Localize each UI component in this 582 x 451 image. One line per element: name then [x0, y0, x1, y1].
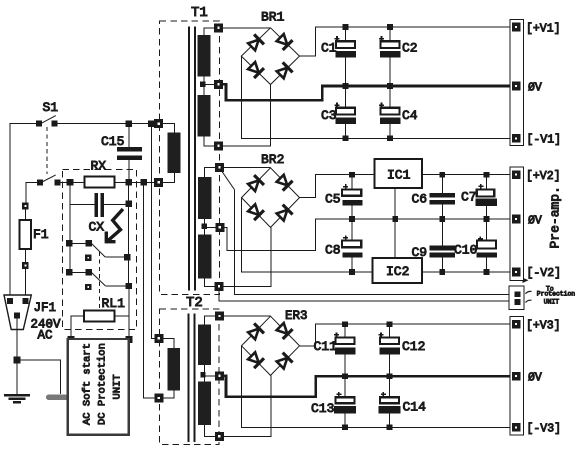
junction C6 bottom: [440, 216, 446, 222]
node T1 primary bottom: [155, 178, 163, 186]
svg-text:IC2: IC2: [386, 264, 409, 279]
wire +V3 bus: [300, 324, 511, 346]
svg-text:ØV: ØV: [528, 82, 542, 95]
wire T2 sec bottom lead: [205, 425, 216, 436]
node sec2 tap small: [202, 224, 206, 228]
switch S1 pole 1: [37, 116, 57, 126]
capacitor C4: [379, 86, 400, 138]
fuse F1: [20, 220, 32, 249]
junction C7 top: [484, 172, 490, 178]
junction C1 top: [343, 24, 349, 30]
bridge BR1 diamond: [241, 28, 299, 85]
svg-text:T2: T2: [186, 295, 203, 311]
svg-text:C5: C5: [325, 192, 341, 207]
terminal +V3: [512, 320, 520, 328]
T1 secondary 1 lower winding: [198, 95, 211, 137]
svg-text:F1: F1: [33, 227, 49, 242]
wire 0V2 bus: [224, 219, 510, 250]
T1 secondary 2 lower winding: [198, 235, 212, 279]
svg-text:[+V1]: [+V1]: [526, 23, 561, 36]
wire sec1 centre tap: [203, 77, 205, 96]
ground earth symbol: [4, 395, 30, 402]
wire RX row: [60, 181, 85, 183]
wire T2 primary top lead: [163, 338, 174, 348]
node sec1 top: [215, 24, 223, 32]
svg-text:C12: C12: [402, 339, 425, 354]
node unit pin left: [68, 337, 74, 343]
capacitor C15: [117, 124, 142, 180]
junction C12 bottom: [387, 373, 393, 379]
ground chassis bar: [46, 394, 75, 400]
svg-text:C13: C13: [311, 401, 334, 416]
junction C5 top: [349, 172, 355, 178]
T1 primary winding: [167, 132, 180, 172]
wire shunt right column: [128, 185, 130, 257]
svg-text:C8: C8: [325, 243, 341, 258]
wire IC1 to IC2 link: [394, 188, 396, 258]
terminal +V2: [512, 171, 520, 179]
capacitor C3: [335, 86, 356, 138]
svg-text:Pre-amp.: Pre-amp.: [548, 186, 563, 248]
svg-text:JF1: JF1: [34, 301, 57, 315]
wire -V2 from IC2 to terminal: [422, 271, 510, 273]
svg-text:UNIT: UNIT: [544, 298, 560, 305]
svg-text:ER3: ER3: [285, 309, 308, 323]
node T2 primary top: [155, 334, 163, 342]
svg-text:C7: C7: [461, 190, 477, 205]
node T2 sec top: [216, 312, 224, 320]
pin E: [15, 313, 20, 318]
svg-text:C10: C10: [454, 243, 477, 258]
diode BR1 D1: [247, 34, 264, 51]
capacitor C5: [342, 175, 363, 219]
node fuse top terminal: [23, 203, 29, 209]
node link marker 1: [86, 255, 91, 260]
wire -V2 to IC2: [242, 198, 373, 272]
node T2 sec bottom: [215, 432, 223, 440]
wire protection sense B: [219, 290, 515, 301]
node fuse bottom terminal: [23, 263, 29, 269]
terminal -V3: [512, 424, 520, 432]
svg-text:BR2: BR2: [261, 152, 284, 167]
wire sec2 bottom lead: [205, 278, 215, 286]
connector JF1 body: [4, 295, 31, 330]
terminal 0V1: [512, 82, 520, 90]
svg-text:C11: C11: [314, 339, 338, 354]
wire mains top from input to S1 and T1 primary: [10, 124, 36, 298]
svg-text:[-V2]: [-V2]: [527, 267, 562, 280]
svg-text:C6: C6: [412, 192, 428, 207]
wire +V2 from IC1 to terminal: [422, 174, 510, 176]
svg-text:[-V1]: [-V1]: [527, 134, 562, 147]
diode BR1 D4: [275, 62, 292, 79]
junction C8 bottom: [349, 269, 355, 275]
T2 core lines: [189, 314, 195, 443]
switch S1 pole 2: [38, 175, 60, 185]
relay link dashed: [99, 252, 101, 310]
terminal +V1: [512, 23, 520, 31]
node sec1 tap small: [201, 82, 205, 86]
junction C11 top: [342, 321, 348, 327]
wire relay right contact to coil lead: [128, 289, 130, 316]
terminal strip 2: [510, 167, 524, 280]
wire 0V bus section3 (thick): [224, 376, 511, 397]
terminal strip 3: [510, 316, 524, 435]
svg-text:IC1: IC1: [387, 168, 411, 183]
svg-text:C14: C14: [403, 400, 427, 415]
node sec2 bottom: [215, 282, 223, 290]
junction C1 bottom: [343, 83, 349, 89]
wire +V2 to IC1: [300, 175, 375, 198]
node T2 sec centre: [216, 372, 224, 380]
svg-text:RX: RX: [91, 159, 107, 174]
pin protection A: [515, 292, 520, 297]
diode BR3 D1: [247, 323, 264, 340]
IC1 box: [375, 159, 423, 188]
junction C2 bottom: [387, 83, 393, 89]
wire AC1 to BR2: [224, 166, 271, 168]
wire live: corner to fuse: [26, 182, 40, 203]
capacitor CX: [70, 193, 129, 217]
svg-text:CX: CX: [89, 220, 105, 235]
node T2 feed tap top wire: [149, 121, 155, 127]
diode BR3 D3: [247, 351, 264, 368]
capacitor C8: [342, 219, 363, 272]
T1 secondary 1 upper winding: [198, 35, 211, 77]
diode BR1 D2: [275, 33, 292, 50]
wire fuse to connector pin: [24, 268, 26, 298]
wire T2 sec top lead: [205, 316, 216, 325]
wire T2 primary feed A (from top wire): [151, 126, 155, 338]
relay contact row 1: [67, 241, 131, 260]
junction C7 bottom: [484, 216, 490, 222]
node T2 primary bottom: [155, 394, 163, 402]
svg-text:Protection: Protection: [537, 290, 576, 297]
capacitor C9: [430, 219, 456, 272]
wire T1 primary top lead: [163, 124, 175, 133]
node earth junction: [14, 357, 20, 363]
diode BR2 D2: [275, 173, 292, 190]
svg-text:[-V3]: [-V3]: [527, 423, 562, 436]
terminal 0V2: [512, 215, 520, 223]
junction C4 bottom: [387, 136, 393, 142]
T1 secondary 2 upper winding: [198, 177, 212, 219]
terminal strip 1: [510, 20, 524, 146]
wire shunt left column: [69, 185, 71, 243]
diode BR2 D1: [247, 175, 264, 192]
arrow strip2 corner: [523, 278, 529, 283]
capacitor C14: [379, 376, 401, 427]
dashed box AC soft start control: [62, 170, 136, 330]
capacitor C1: [335, 27, 356, 86]
T1 core lines: [189, 26, 195, 290]
svg-text:[+V3]: [+V3]: [526, 320, 561, 333]
node RX output junction T2 feed: [141, 180, 147, 186]
T2 primary winding: [168, 348, 180, 390]
squiggle B: [526, 300, 532, 302]
relay coil RL1: [84, 310, 114, 321]
junction IC link 0V: [392, 216, 398, 222]
wire T1 primary bottom lead: [163, 173, 175, 183]
wire AC1 top to bridge: [223, 27, 271, 29]
wire shunt right column lower: [128, 260, 130, 286]
wire into fuse: [24, 209, 26, 263]
capacitor C13: [334, 376, 356, 427]
diode BR3 D2: [275, 322, 292, 339]
capacitor C11: [334, 324, 355, 376]
wire AC2 to BR3: [223, 375, 270, 436]
T2 secondary upper winding: [198, 325, 211, 366]
relay actuator arrow: [106, 210, 122, 241]
svg-text:RL1: RL1: [102, 296, 126, 311]
capacitor C7: [475, 175, 497, 219]
svg-text:C3: C3: [321, 108, 337, 123]
wire T2 primary feed B (from RX output): [144, 185, 156, 398]
pin N: [23, 299, 28, 304]
wire sec1 top lead: [204, 28, 215, 35]
wire earth pin down: [16, 318, 18, 394]
protection unit box: [68, 339, 129, 435]
pin protection B: [515, 300, 520, 305]
wire coil left lead: [71, 316, 84, 338]
pin L: [8, 299, 13, 304]
svg-text:C15: C15: [101, 134, 124, 149]
junction C5 bottom: [349, 216, 355, 222]
node sec2 top: [216, 163, 224, 171]
junction C3 bottom: [343, 136, 349, 142]
wire T2 primary bottom lead: [163, 390, 174, 398]
svg-text:DC Protection: DC Protection: [97, 343, 109, 425]
capacitor C10: [477, 219, 497, 272]
junction C14 bottom: [387, 425, 393, 431]
wire shunt left column lower: [69, 246, 71, 272]
node unit pin right: [126, 337, 132, 343]
capacitor C12: [379, 324, 400, 376]
wire sec1 bottom lead: [204, 137, 215, 146]
S1 mechanical link (dashed): [46, 127, 48, 174]
node RX input junction: [67, 180, 73, 186]
node sec1 centre: [215, 80, 223, 88]
junction C9 bottom: [440, 269, 446, 275]
transformer T2 dashed box: [160, 309, 220, 445]
wire coil right lead: [114, 316, 129, 338]
svg-text:C2: C2: [402, 41, 418, 56]
svg-text:T1: T1: [191, 5, 208, 21]
bridge BR3 diamond: [242, 316, 300, 375]
protection terminal box: [509, 286, 524, 310]
wire protection sense A: [221, 170, 235, 190]
junction C10 bottom: [484, 269, 490, 275]
svg-text:C4: C4: [402, 108, 418, 123]
node C15 top tap: [126, 121, 132, 127]
terminal -V1: [512, 135, 520, 143]
node T2 sec tap small: [201, 373, 205, 377]
junction C13 bottom: [342, 425, 348, 431]
squiggle A: [526, 291, 532, 293]
svg-text:C1: C1: [321, 41, 337, 56]
svg-text:AC Soft start: AC Soft start: [82, 343, 94, 425]
node link marker 2: [86, 284, 91, 289]
diode BR1 D3: [247, 61, 264, 78]
wire AC2 bottom to bridge: [223, 85, 271, 146]
bridge BR2 diamond: [242, 168, 300, 228]
junction C11 bottom: [342, 373, 348, 379]
svg-text:S1: S1: [43, 100, 59, 115]
node T1 primary top: [155, 120, 163, 128]
node sec2 centre: [216, 223, 224, 231]
node RX output junction C15 column: [126, 180, 132, 186]
IC2 box: [373, 258, 422, 283]
terminal 0V3: [512, 372, 520, 380]
node sec1 bottom: [215, 142, 223, 150]
wire -V1 bus: [241, 56, 510, 138]
diode BR3 D4: [275, 353, 292, 370]
wire -V3 bus: [242, 346, 511, 428]
svg-text:ØV: ØV: [528, 372, 542, 385]
wire sec2 centre tap: [204, 219, 206, 235]
relay contact row 2: [67, 270, 132, 289]
svg-text:UNIT: UNIT: [112, 374, 124, 399]
wire AC1 to BR3: [224, 315, 271, 317]
wire +V1 bus: [300, 27, 511, 56]
wire 0V bus section1 (thick): [223, 84, 511, 100]
wire AC2 to BR2: [223, 227, 271, 286]
svg-text:C9: C9: [412, 245, 428, 260]
svg-text:AC: AC: [38, 329, 53, 343]
diode BR2 D3: [247, 203, 264, 220]
transformer T1 dashed box: [160, 21, 220, 295]
T2 secondary lower winding: [198, 382, 211, 426]
capacitor C6: [430, 175, 456, 219]
svg-text:[+V2]: [+V2]: [526, 170, 561, 183]
terminal -V2: [512, 268, 520, 276]
svg-text:BR1: BR1: [261, 10, 285, 25]
junction C6 top: [440, 172, 446, 178]
capacitor C2: [379, 27, 400, 86]
junction C12 top: [387, 321, 393, 327]
wire earth to chassis bar: [17, 360, 60, 394]
junction C2 top: [387, 24, 393, 30]
svg-text:ØV: ØV: [528, 215, 542, 228]
wire T2 sec centre tap: [204, 365, 206, 382]
resistor RX: [85, 177, 115, 188]
node CX right tap: [126, 201, 131, 206]
diode BR2 D4: [275, 205, 292, 222]
wire sec2 top lead: [205, 167, 216, 177]
